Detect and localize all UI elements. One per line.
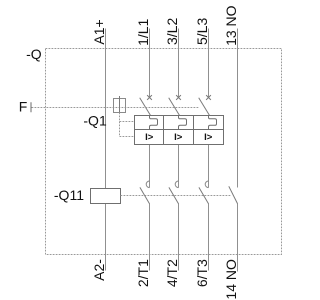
thermal overload element pole 2 [179, 116, 187, 130]
svg-text:4/T2: 4/T2 [164, 259, 180, 287]
contactor actuation dashed link [121, 195, 232, 197]
main contact blade pole 3 [199, 187, 209, 203]
contactor coil -Q11 [91, 189, 121, 204]
wire 14 NO bottom segment [237, 204, 239, 272]
breaker contact cross pole 3 [206, 95, 211, 100]
svg-text:6/T3: 6/T3 [194, 259, 210, 287]
release box plunger line [119, 96, 121, 113]
wire pole 3 mid segment [208, 145, 210, 188]
breaker blade pole 1 [140, 98, 151, 115]
auxiliary contact blade 13-14 NO [229, 186, 238, 203]
svg-text:13 NO: 13 NO [223, 5, 239, 46]
release box (trip solenoid) [114, 99, 126, 113]
svg-text:I>: I> [204, 132, 213, 143]
wire 3/L2 top segment [178, 29, 180, 98]
main contact hook pole 3 [205, 181, 208, 188]
thermal overload element pole 3 [209, 116, 217, 130]
enclosure dashed border -Q [46, 49, 282, 255]
wire 6/T3 bottom segment [208, 204, 210, 271]
svg-text:3/L2: 3/L2 [164, 18, 180, 45]
wire A1+ / A2- conductor [105, 29, 107, 271]
breaker contact cross pole 2 [176, 95, 181, 100]
svg-text:2/T1: 2/T1 [135, 259, 151, 287]
svg-text:A1+: A1+ [91, 19, 107, 44]
breaker contact cross pole 1 [147, 95, 152, 100]
thermal overload element pole 1 [150, 116, 158, 130]
breaker blade pole 3 [199, 98, 210, 115]
wire pole 2 mid segment [178, 145, 180, 188]
svg-text:I>: I> [145, 132, 154, 143]
svg-text:-Q1: -Q1 [83, 113, 107, 129]
trip unit box -Q1 (3 poles x thermal/magnetic) [135, 116, 224, 145]
svg-text:F: F [19, 98, 28, 114]
svg-text:-Q: -Q [26, 46, 42, 62]
svg-text:5/L3: 5/L3 [194, 18, 210, 45]
breaker blade pole 2 [169, 98, 180, 115]
svg-text:14 NO: 14 NO [223, 259, 239, 300]
wire 5/L3 top segment [208, 29, 210, 98]
mechanism dashed link upper horizontal [120, 121, 135, 123]
main contact hook pole 1 [146, 181, 149, 188]
svg-text:I>: I> [174, 132, 183, 143]
svg-text:A2-: A2- [91, 259, 107, 281]
main contact blade pole 2 [169, 187, 179, 203]
wire 4/T2 bottom segment [178, 204, 180, 271]
svg-text:-Q11: -Q11 [54, 187, 84, 203]
svg-text:1/L1: 1/L1 [135, 18, 151, 45]
wire pole 1 mid segment [149, 145, 151, 188]
release F terminal tick [30, 102, 32, 112]
wire 13 NO top segment [237, 29, 239, 188]
release F dashed actuation line [32, 107, 200, 109]
wire 2/T1 bottom segment [149, 204, 151, 271]
main contact hook pole 2 [175, 181, 178, 188]
mechanism dashed link lower horizontal [120, 136, 135, 138]
main contact blade pole 1 [140, 187, 150, 203]
wire 1/L1 top segment [149, 29, 151, 98]
mechanism dashed link vertical [119, 113, 121, 137]
